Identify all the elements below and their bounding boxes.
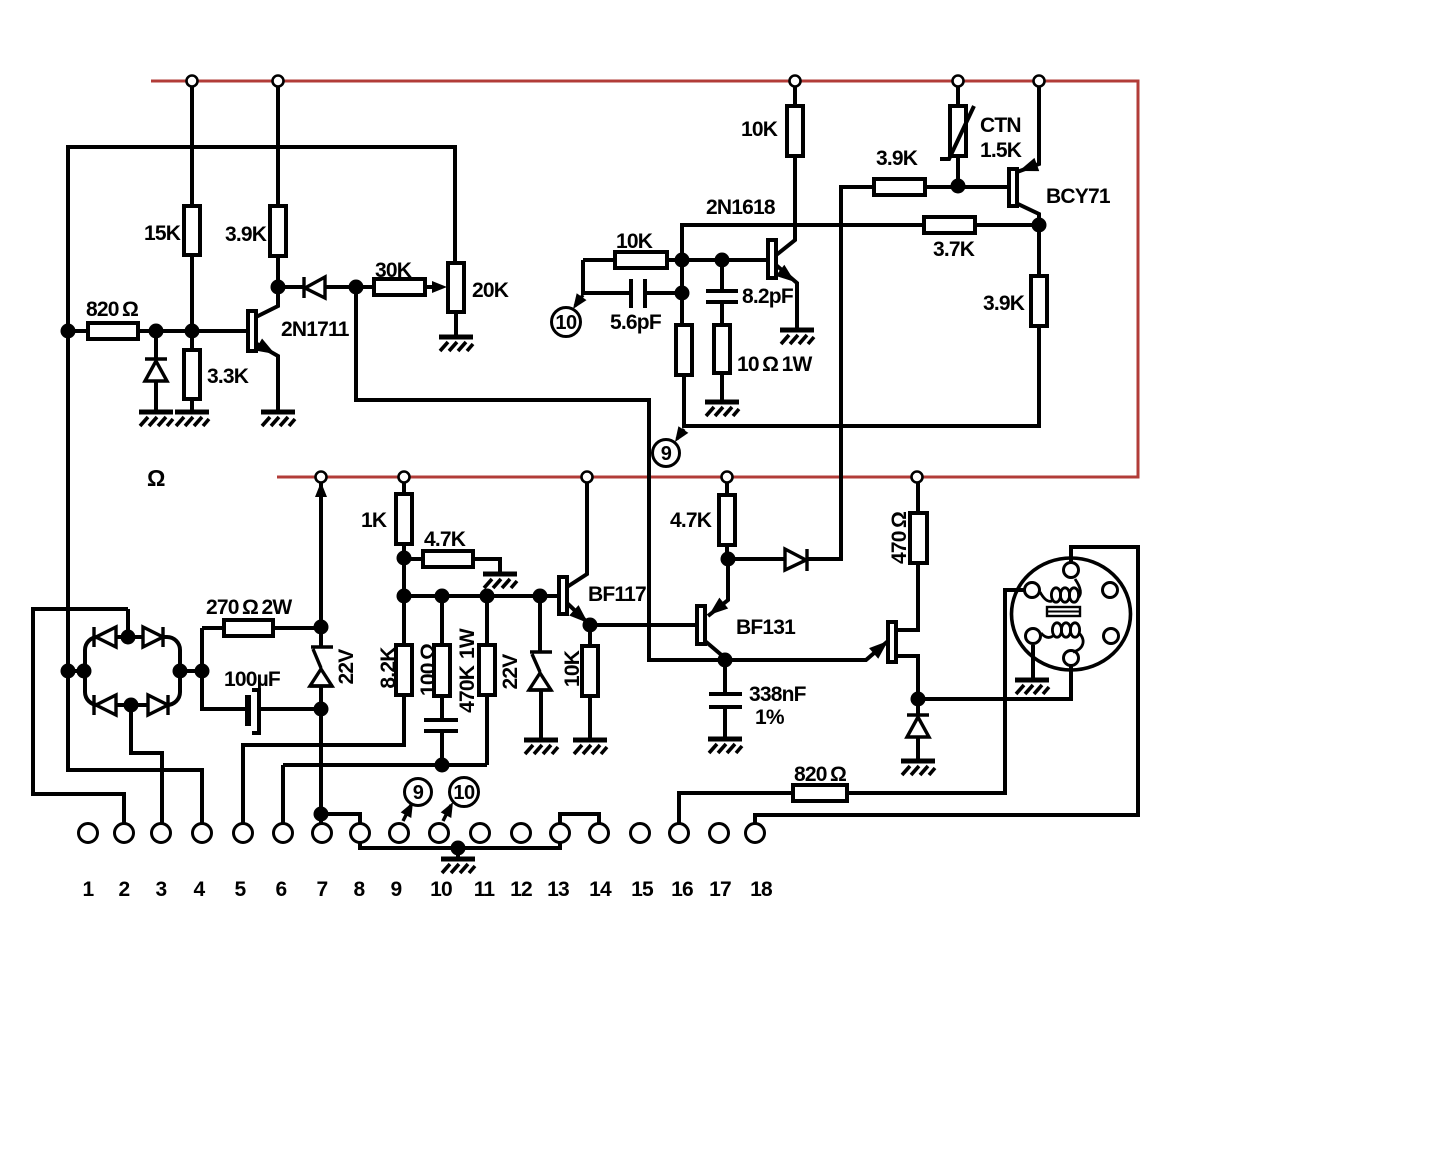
svg-text:1%: 1% <box>755 706 785 729</box>
svg-text:10K: 10K <box>561 650 584 687</box>
svg-text:2: 2 <box>119 878 130 901</box>
svg-text:10: 10 <box>453 782 475 804</box>
svg-text:3.9K: 3.9K <box>983 292 1025 315</box>
svg-text:5.6pF: 5.6pF <box>610 311 662 334</box>
svg-text:9: 9 <box>391 878 402 901</box>
svg-text:BF117: BF117 <box>588 583 646 606</box>
svg-text:8: 8 <box>354 878 366 901</box>
svg-text:8.2pF: 8.2pF <box>742 285 794 308</box>
svg-text:22V: 22V <box>335 649 358 685</box>
svg-text:14: 14 <box>589 878 612 901</box>
svg-text:15K: 15K <box>144 222 181 245</box>
svg-text:100 Ω: 100 Ω <box>417 644 440 696</box>
svg-text:4.7K: 4.7K <box>424 528 466 551</box>
svg-text:9: 9 <box>413 782 424 804</box>
svg-text:18: 18 <box>750 878 773 901</box>
svg-text:7: 7 <box>317 878 328 901</box>
svg-text:1.5K: 1.5K <box>980 139 1022 162</box>
svg-text:338nF: 338nF <box>749 683 807 706</box>
svg-text:10K: 10K <box>741 118 778 141</box>
svg-text:22V: 22V <box>499 654 522 690</box>
svg-text:10: 10 <box>555 312 577 334</box>
svg-text:820 Ω: 820 Ω <box>794 763 846 786</box>
svg-text:17: 17 <box>709 878 731 901</box>
svg-text:3.9K: 3.9K <box>876 147 918 170</box>
svg-text:BF131: BF131 <box>736 616 796 639</box>
svg-text:3.3K: 3.3K <box>207 365 249 388</box>
svg-text:2N1618: 2N1618 <box>706 196 776 219</box>
svg-text:1K: 1K <box>361 509 387 532</box>
svg-text:10 Ω 1W: 10 Ω 1W <box>737 353 812 376</box>
svg-text:470K 1W: 470K 1W <box>456 628 479 713</box>
svg-text:100µF: 100µF <box>224 668 281 691</box>
svg-text:3: 3 <box>156 878 167 901</box>
svg-text:470 Ω: 470 Ω <box>888 512 911 564</box>
svg-text:12: 12 <box>510 878 532 901</box>
svg-text:8.2K: 8.2K <box>377 647 400 689</box>
svg-text:9: 9 <box>661 443 672 465</box>
svg-text:1: 1 <box>83 878 95 901</box>
svg-text:20K: 20K <box>472 279 509 302</box>
svg-text:3.9K: 3.9K <box>225 223 267 246</box>
svg-text:13: 13 <box>547 878 569 901</box>
svg-text:4.7K: 4.7K <box>670 509 712 532</box>
svg-text:Ω: Ω <box>147 465 165 491</box>
svg-text:CTN: CTN <box>980 114 1021 137</box>
svg-text:10K: 10K <box>616 230 653 253</box>
svg-text:4: 4 <box>194 878 206 901</box>
svg-text:16: 16 <box>671 878 693 901</box>
svg-text:30K: 30K <box>375 259 412 282</box>
svg-text:15: 15 <box>631 878 654 901</box>
svg-text:2N1711: 2N1711 <box>281 318 350 341</box>
svg-text:270 Ω 2W: 270 Ω 2W <box>206 596 292 619</box>
svg-text:3.7K: 3.7K <box>933 238 975 261</box>
svg-text:6: 6 <box>276 878 287 901</box>
svg-text:5: 5 <box>235 878 247 901</box>
svg-text:10: 10 <box>430 878 452 901</box>
svg-text:11: 11 <box>474 878 496 901</box>
svg-text:820 Ω: 820 Ω <box>86 298 138 321</box>
svg-text:BCY71: BCY71 <box>1046 185 1111 208</box>
